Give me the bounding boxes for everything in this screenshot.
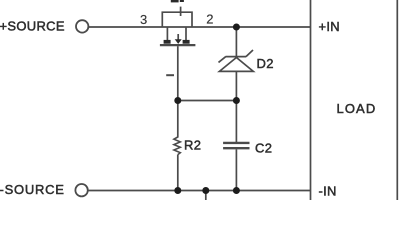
wire D2 to node <box>235 71 237 100</box>
terminal +SOURCE <box>76 20 88 32</box>
wire gate node to D2 node <box>178 100 237 102</box>
transistor Q2 gate pin tick <box>166 74 174 76</box>
svg-text:R2: R2 <box>184 138 201 153</box>
zener diode D2 cathode bar <box>226 56 247 58</box>
svg-text:D2: D2 <box>257 56 274 71</box>
transistor Q2 substrate arrowhead <box>175 39 182 44</box>
wire node to R2 <box>177 101 179 138</box>
wire ground stub below bottom rail <box>205 191 207 201</box>
zener diode D2 right wing <box>246 50 253 57</box>
svg-text:3: 3 <box>140 12 148 27</box>
wire top rail +SOURCE to +IN <box>88 26 310 28</box>
svg-text:-IN: -IN <box>319 183 337 198</box>
node bottom rail / C2 <box>233 187 240 194</box>
zener diode D2 left wing <box>219 57 226 63</box>
wire C2 to bottom rail <box>235 149 237 190</box>
load box left edge <box>310 0 312 200</box>
transistor Q2 body bracket <box>162 12 192 27</box>
svg-text:2: 2 <box>206 12 214 27</box>
wire D2 branch upper <box>235 27 237 57</box>
terminal -SOURCE <box>75 184 87 196</box>
svg-text:+IN: +IN <box>319 19 341 34</box>
transistor Q2 right contact pad <box>183 40 190 44</box>
svg-text:-SOURCE: -SOURCE <box>0 182 65 197</box>
wire node to C2 <box>235 101 237 143</box>
wire gate lead down <box>177 46 179 100</box>
resistor R2 zigzag <box>174 137 180 155</box>
transistor Q2 label bottom clipped <box>171 0 184 2</box>
wire bottom rail -SOURCE to -IN <box>88 190 311 192</box>
svg-text:C2: C2 <box>255 140 272 155</box>
wire R2 to bottom rail <box>177 155 179 191</box>
node top rail / D2 <box>233 24 240 31</box>
capacitor C2 top plate <box>223 142 249 144</box>
load box right edge <box>396 0 398 200</box>
transistor Q2 pin-1 tick <box>180 7 182 16</box>
transistor Q2 substrate arrow stem <box>177 34 179 40</box>
node bottom rail / R2 <box>174 187 181 194</box>
transistor Q2 left leg <box>166 27 168 41</box>
node D2 / C2 <box>233 97 240 104</box>
transistor Q2 right leg <box>185 27 187 41</box>
svg-text:LOAD: LOAD <box>337 101 377 116</box>
svg-text:+SOURCE: +SOURCE <box>0 19 65 34</box>
node bottom rail / ground stub <box>202 187 209 194</box>
zener diode D2 anode triangle <box>219 58 253 72</box>
transistor Q2 channel bar <box>160 44 196 46</box>
transistor Q2 left contact pad <box>164 40 171 44</box>
node gate / R2 <box>174 97 181 104</box>
capacitor C2 bottom plate <box>223 147 249 149</box>
